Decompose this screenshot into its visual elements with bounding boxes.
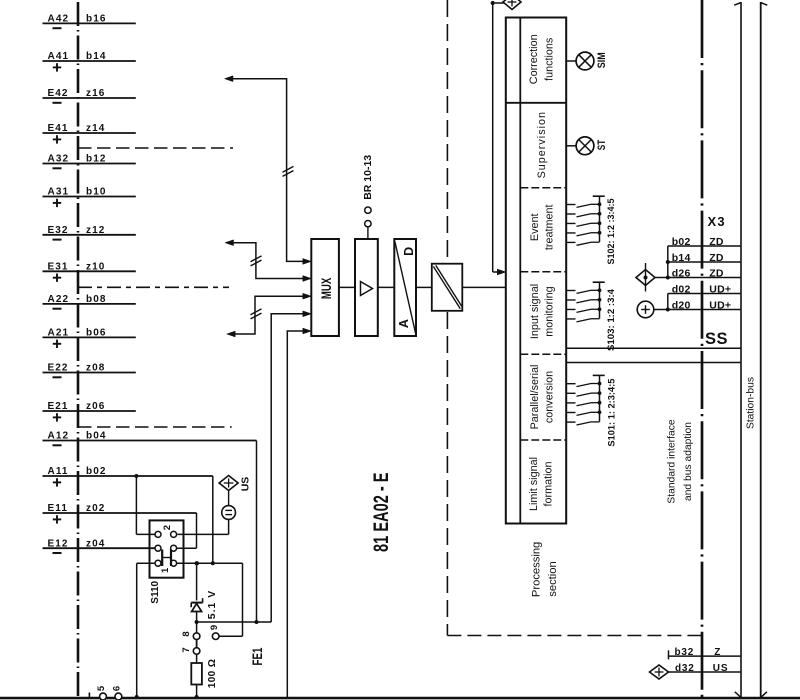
svg-text:ST: ST xyxy=(596,140,608,151)
svg-text:A: A xyxy=(397,319,411,328)
svg-text:section: section xyxy=(547,561,559,596)
svg-text:E12: E12 xyxy=(48,538,69,549)
svg-text:7: 7 xyxy=(181,647,192,652)
svg-text:MUX: MUX xyxy=(319,278,334,300)
svg-text:and bus adaption: and bus adaption xyxy=(683,422,694,501)
svg-text:SIM: SIM xyxy=(596,52,608,68)
svg-text:Limit signal: Limit signal xyxy=(528,457,540,511)
svg-text:b06: b06 xyxy=(86,328,107,339)
svg-text:z02: z02 xyxy=(86,503,105,514)
svg-text:100 Ω: 100 Ω xyxy=(207,659,218,688)
svg-text:d02: d02 xyxy=(672,283,691,295)
svg-text:b12: b12 xyxy=(86,154,107,165)
svg-text:treatment: treatment xyxy=(544,204,556,250)
svg-text:S102: 1:2 :3:4:5: S102: 1:2 :3:4:5 xyxy=(606,199,616,265)
svg-text:Event: Event xyxy=(529,213,541,241)
svg-text:ZD: ZD xyxy=(709,236,724,248)
svg-text:81 EA02 - E: 81 EA02 - E xyxy=(369,472,393,552)
svg-text:Station-bus: Station-bus xyxy=(745,377,756,429)
svg-text:d26: d26 xyxy=(672,267,691,279)
svg-text:z10: z10 xyxy=(86,261,105,272)
svg-text:E22: E22 xyxy=(48,363,69,374)
svg-text:E41: E41 xyxy=(48,123,69,134)
svg-text:S110: S110 xyxy=(150,580,161,603)
svg-text:d32: d32 xyxy=(675,663,695,674)
svg-text:Standard interface: Standard interface xyxy=(666,419,677,503)
svg-text:UD+: UD+ xyxy=(709,283,731,295)
svg-text:b14: b14 xyxy=(86,51,107,62)
svg-text:5.1 V: 5.1 V xyxy=(206,590,218,620)
svg-text:6: 6 xyxy=(112,686,123,691)
svg-text:monitoring: monitoring xyxy=(544,286,556,336)
svg-text:E11: E11 xyxy=(48,503,69,514)
svg-text:E32: E32 xyxy=(48,225,69,236)
svg-text:S101: 1: 2:3:4:5: S101: 1: 2:3:4:5 xyxy=(606,379,616,447)
svg-text:ZD: ZD xyxy=(709,267,724,279)
svg-text:E42: E42 xyxy=(48,88,69,99)
svg-text:b08: b08 xyxy=(86,294,107,305)
svg-text:b32: b32 xyxy=(675,647,695,658)
svg-text:b02: b02 xyxy=(672,236,691,248)
svg-text:z14: z14 xyxy=(86,123,105,134)
svg-text:d20: d20 xyxy=(672,299,691,311)
svg-text:z04: z04 xyxy=(86,538,105,549)
svg-text:ZD: ZD xyxy=(709,252,724,264)
svg-text:FE1: FE1 xyxy=(250,647,265,665)
svg-text:1: 1 xyxy=(160,567,171,573)
svg-text:D: D xyxy=(402,247,416,256)
svg-text:A32: A32 xyxy=(48,154,70,165)
svg-text:US: US xyxy=(239,477,251,492)
svg-text:b14: b14 xyxy=(672,252,691,264)
svg-text:conversion: conversion xyxy=(544,371,556,423)
svg-text:Processing: Processing xyxy=(531,542,543,597)
svg-text:BR 10-13: BR 10-13 xyxy=(362,155,374,200)
svg-text:b04: b04 xyxy=(86,431,107,442)
svg-text:Input signal: Input signal xyxy=(529,284,541,339)
svg-text:S103: 1:2 :3:4: S103: 1:2 :3:4 xyxy=(606,289,616,351)
svg-text:E21: E21 xyxy=(48,401,69,412)
svg-text:E31: E31 xyxy=(48,261,69,272)
svg-text:Parallel/serial: Parallel/serial xyxy=(529,365,541,430)
svg-text:Correction: Correction xyxy=(528,34,540,84)
svg-text:z06: z06 xyxy=(86,401,105,412)
svg-text:z16: z16 xyxy=(86,88,105,99)
svg-text:5: 5 xyxy=(96,685,107,691)
svg-text:A42: A42 xyxy=(48,14,70,25)
svg-text:A22: A22 xyxy=(48,294,70,305)
svg-text:X3: X3 xyxy=(708,214,726,229)
svg-text:A31: A31 xyxy=(48,187,70,198)
svg-text:z12: z12 xyxy=(86,225,105,236)
svg-text:functions: functions xyxy=(544,37,556,81)
svg-text:A11: A11 xyxy=(48,466,69,477)
svg-text:b02: b02 xyxy=(86,466,107,477)
svg-text:formation: formation xyxy=(542,461,554,506)
svg-text:A21: A21 xyxy=(48,328,70,339)
svg-text:8: 8 xyxy=(181,631,192,636)
svg-text:z08: z08 xyxy=(86,363,105,374)
svg-text:b16: b16 xyxy=(86,14,107,25)
svg-text:2: 2 xyxy=(162,525,173,530)
svg-text:UD+: UD+ xyxy=(709,299,731,311)
svg-text:A41: A41 xyxy=(48,51,70,62)
svg-text:9: 9 xyxy=(209,625,220,630)
svg-text:Supervision: Supervision xyxy=(536,111,548,178)
svg-text:b10: b10 xyxy=(86,187,107,198)
svg-text:A12: A12 xyxy=(48,431,70,442)
svg-text:SS: SS xyxy=(705,330,728,348)
